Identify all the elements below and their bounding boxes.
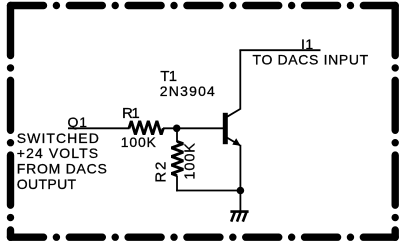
svg-text:100K: 100K: [121, 134, 157, 150]
wire junction to R2: [176, 128, 178, 142]
border frame bottom: [11, 233, 396, 240]
svg-text:SWITCHED: SWITCHED: [17, 130, 100, 146]
svg-text:2N3904: 2N3904: [160, 83, 216, 99]
junction node emitter/R2/ground: [237, 187, 245, 195]
resistor R2: [172, 142, 184, 176]
border frame left: [7, 6, 14, 238]
label SWITCHED +24 VOLTS FROM DACS OUTPUT: [17, 130, 108, 192]
wire collector up: [239, 50, 241, 109]
svg-text:OUTPUT: OUTPUT: [17, 176, 77, 192]
emitter arrow: [232, 138, 240, 145]
border frame right: [392, 6, 399, 238]
wire R2 bottom to corner: [176, 176, 178, 192]
svg-text:TO DACS INPUT: TO DACS INPUT: [253, 52, 369, 68]
wire output top: [239, 49, 320, 51]
base bar: [223, 113, 228, 144]
collector diagonal: [227, 109, 241, 117]
wire to ground: [239, 191, 241, 212]
junction node R1/R2/base: [173, 125, 181, 133]
wire R1 to base: [163, 127, 223, 129]
svg-text:R2: R2: [152, 160, 169, 183]
svg-text:FROM DACS: FROM DACS: [17, 161, 108, 177]
border frame top: [11, 2, 396, 9]
svg-text:100K: 100K: [183, 142, 199, 179]
svg-text:R1: R1: [122, 105, 139, 122]
emitter diagonal: [227, 138, 240, 146]
wire emitter down: [239, 145, 241, 191]
transistor T1 2N3904: [223, 109, 241, 146]
resistor R1: [129, 121, 163, 135]
wire corner to emitter junction: [176, 190, 240, 192]
svg-text:+24 VOLTS: +24 VOLTS: [17, 145, 99, 161]
wire input to R1: [68, 127, 130, 129]
svg-text:I1: I1: [301, 36, 314, 52]
ground: [230, 212, 248, 222]
